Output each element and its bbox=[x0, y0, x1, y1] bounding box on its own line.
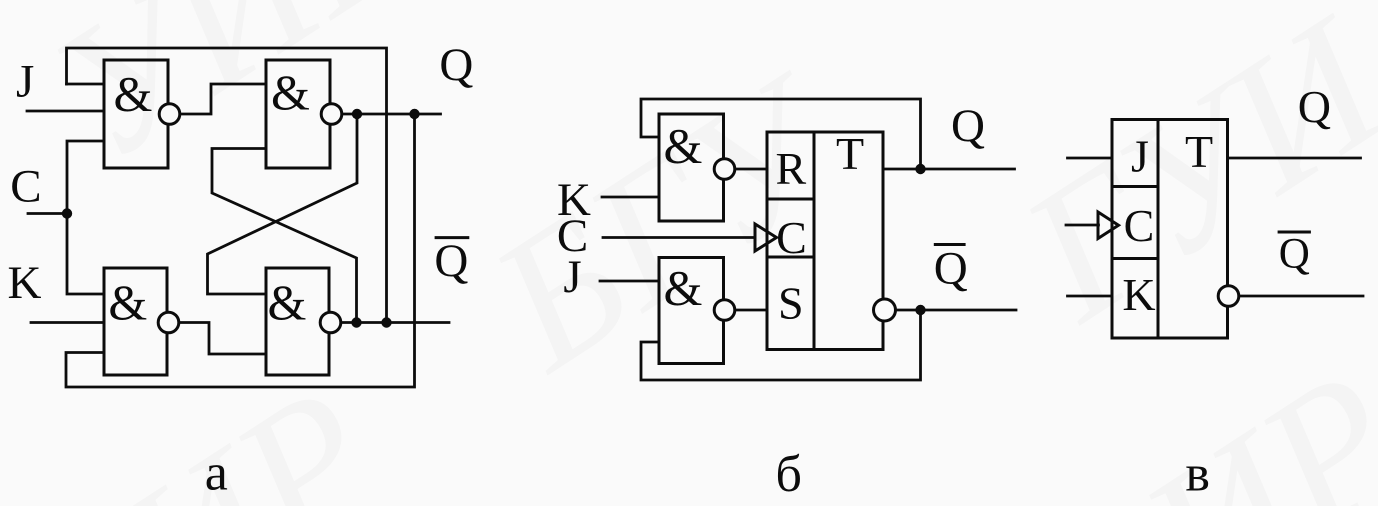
junction dot Qbar line 1 bbox=[351, 317, 361, 327]
wire: feedback bottom (Q to G3 lower input) bbox=[66, 114, 415, 387]
wire: Q output line bbox=[342, 113, 441, 116]
svg-text:Q: Q bbox=[1279, 231, 1310, 278]
overline of Qbar b bbox=[934, 243, 966, 246]
JK flip-flop block bbox=[1112, 120, 1228, 339]
svg-text:S: S bbox=[778, 278, 804, 329]
junction dot Q line 1 bbox=[352, 109, 362, 119]
wire: Q output bbox=[883, 168, 1015, 171]
wire: J input bbox=[600, 280, 659, 283]
svg-text:&: & bbox=[664, 117, 703, 173]
svg-text:Q: Q bbox=[434, 235, 468, 287]
nand gate G6 bbox=[659, 258, 724, 364]
clock triangle bbox=[755, 224, 777, 251]
T flip-flop block bbox=[767, 132, 883, 350]
inverter bubble block Qbar bbox=[874, 299, 896, 321]
wire: Qbar output bbox=[1240, 295, 1364, 298]
svg-text:J: J bbox=[1131, 131, 1149, 182]
svg-text:Q: Q bbox=[951, 100, 985, 152]
wire: K input bbox=[31, 321, 104, 324]
svg-text:&: & bbox=[108, 274, 147, 330]
wire: C input bbox=[603, 236, 755, 239]
svg-text:C: C bbox=[1124, 200, 1155, 251]
svg-text:Q: Q bbox=[1298, 81, 1331, 132]
svg-text:&: & bbox=[271, 64, 310, 120]
wire: G1 upper input bbox=[67, 83, 105, 86]
inverter bubble G5 bbox=[714, 159, 735, 180]
block divider bbox=[813, 132, 816, 350]
wire: G3 output to G4 lower input bbox=[180, 323, 266, 355]
inverter bubble G4 bbox=[320, 312, 341, 333]
inverter bubble G2 bbox=[321, 104, 342, 125]
wire: K input bbox=[602, 196, 659, 199]
svg-text:&: & bbox=[113, 66, 152, 122]
wire: cross Q to G4 upper input bbox=[208, 114, 358, 294]
wire: G6 output to S bbox=[735, 309, 767, 312]
nand gate G3 bbox=[104, 268, 167, 375]
nand gate G2 bbox=[266, 60, 330, 168]
nand gate G1 bbox=[104, 60, 168, 168]
wire: C input bbox=[1066, 224, 1099, 227]
R/C divider bbox=[767, 198, 814, 201]
svg-text:б: б bbox=[775, 446, 801, 503]
wire: Q output bbox=[1228, 157, 1361, 160]
svg-text:Q: Q bbox=[934, 243, 968, 295]
overline of Qbar bbox=[435, 236, 470, 239]
svg-text:T: T bbox=[1185, 126, 1213, 177]
nand gate G4 bbox=[266, 268, 329, 375]
junction dot Qbar bbox=[915, 305, 925, 315]
svg-text:&: & bbox=[664, 260, 703, 316]
clock triangle bbox=[1098, 212, 1119, 239]
svg-text:K: K bbox=[1122, 269, 1155, 320]
wire: G1 output to G2 upper input bbox=[181, 84, 266, 114]
wire: Qbar output bbox=[897, 309, 1016, 312]
wire: feedback top (Q to G5 upper input) bbox=[641, 99, 921, 169]
wire: J input bbox=[1068, 157, 1113, 160]
inverter bubble G1 bbox=[159, 104, 180, 125]
wire: C input bbox=[28, 212, 67, 215]
overline of Qbar v bbox=[1278, 231, 1311, 234]
wire: K input bbox=[1068, 295, 1113, 298]
block divider bbox=[1157, 120, 1160, 339]
C/K divider bbox=[1112, 257, 1158, 260]
svg-text:T: T bbox=[836, 128, 864, 179]
wire: Qbar output line bbox=[341, 321, 449, 324]
inverter bubble G6 bbox=[714, 300, 735, 321]
svg-text:K: K bbox=[8, 257, 42, 309]
inverter bubble block Qbar v bbox=[1218, 286, 1239, 307]
wire: C vertical to G1 and G3 bbox=[67, 141, 104, 294]
inverter bubble G3 bbox=[158, 312, 179, 333]
svg-text:J: J bbox=[16, 55, 34, 107]
nand gate G5 bbox=[659, 114, 724, 221]
wire: feedback bottom (Qbar to G6 lower input) bbox=[641, 310, 921, 380]
svg-text:R: R bbox=[775, 143, 806, 194]
junction dot C node bbox=[62, 208, 72, 218]
wire: J input bbox=[27, 110, 104, 113]
junction dot Qbar line 2 bbox=[381, 317, 391, 327]
wire: feedback top (Qbar to G1 upper input) bbox=[67, 48, 387, 323]
junction dot Q line 2 bbox=[409, 109, 419, 119]
svg-text:а: а bbox=[205, 445, 228, 502]
J/C divider bbox=[1112, 185, 1158, 188]
svg-text:C: C bbox=[10, 161, 41, 213]
svg-text:&: & bbox=[268, 274, 307, 330]
wire: G5 output to R bbox=[735, 168, 767, 171]
junction dot Q bbox=[915, 164, 925, 174]
svg-text:Q: Q bbox=[439, 39, 473, 91]
svg-text:в: в bbox=[1185, 446, 1210, 503]
svg-text:J: J bbox=[563, 251, 581, 303]
wire: cross Qbar to G2 lower input bbox=[212, 149, 357, 323]
svg-text:C: C bbox=[776, 212, 807, 263]
C/S divider bbox=[767, 256, 814, 259]
